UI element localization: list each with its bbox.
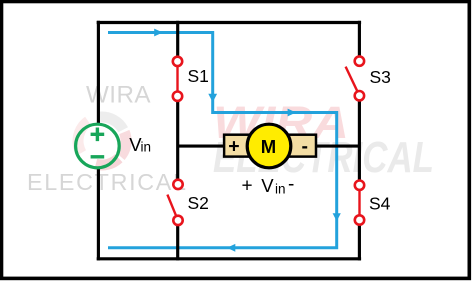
svg-text:V: V: [261, 175, 274, 196]
switch S4 (closed): [355, 181, 364, 225]
svg-text:+: +: [228, 136, 239, 158]
svg-text:+: +: [242, 176, 253, 197]
current arrow down (segment at S1 right): [208, 94, 217, 103]
wire: bottom rail: [97, 257, 361, 260]
motor M (terminal box): [224, 135, 316, 158]
wire: S4 branch bottom (S4 to bottom rail): [358, 225, 361, 261]
current path wire (blue): [108, 33, 337, 248]
svg-text:-: -: [302, 136, 309, 158]
svg-text:S1: S1: [188, 66, 209, 86]
current arrow down (segment right of motor): [333, 213, 341, 221]
current arrow right (top segment): [154, 29, 163, 37]
svg-text:S3: S3: [370, 67, 391, 87]
label + Vin - (motor voltage): [242, 174, 295, 197]
svg-text:-: -: [288, 174, 294, 195]
wire: S3 branch top (top rail to S3): [358, 21, 361, 56]
wire: motor right lead (motor - to node B): [315, 145, 359, 148]
svg-text:S4: S4: [369, 194, 391, 214]
current arrow left (bottom segment): [227, 244, 235, 252]
current arrow right (segment above motor): [288, 109, 296, 117]
svg-text:WIRA: WIRA: [86, 82, 151, 109]
wire: top rail: [97, 21, 361, 24]
label Vin (source): [129, 134, 151, 155]
wire: S1 to S2 segment through motor node: [176, 101, 179, 179]
switch S1 (closed): [173, 57, 182, 101]
svg-text:M: M: [261, 136, 276, 157]
wire: S3 to S4 segment through motor node: [358, 101, 361, 181]
motor M (rotor circle): [247, 124, 291, 168]
wire: left rail lower (Vin- to bottom wire): [97, 168, 100, 261]
svg-text:ELECTRICAL: ELECTRICAL: [27, 169, 186, 195]
svg-text:S2: S2: [188, 193, 209, 213]
switch S3 (open): [346, 56, 364, 100]
svg-text:in: in: [141, 140, 152, 155]
wire: S1 branch top (top rail to S1): [176, 21, 179, 57]
wire: left rail upper (top wire to Vin+): [97, 21, 100, 124]
wire: motor left lead (node A to motor +): [178, 145, 225, 148]
wire: S2 branch bottom (S2 to bottom rail): [176, 225, 179, 260]
switch S2 (open): [167, 180, 182, 225]
voltage source Vin: [76, 124, 120, 168]
svg-text:in: in: [275, 182, 286, 197]
